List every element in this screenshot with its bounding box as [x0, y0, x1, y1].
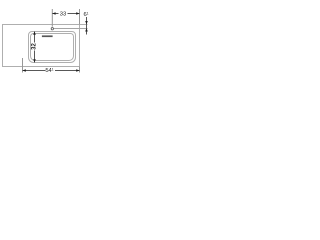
svg-text:541: 541 [45, 67, 53, 74]
svg-text:61: 61 [83, 11, 88, 18]
svg-text:32: 32 [32, 43, 38, 50]
svg-text:33: 33 [60, 12, 66, 18]
